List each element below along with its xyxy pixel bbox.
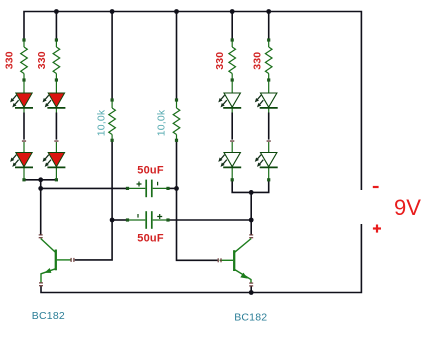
node dot cap1 right / node B (174, 186, 179, 191)
wire LED link chain3 (231, 113, 233, 140)
node dot top rail R4 (266, 9, 271, 14)
LED D8 chain4 bottom (255, 140, 278, 181)
wire top rail with left drop to R1 and right rail down to battery minus (24, 12, 361, 191)
svg-text:330: 330 (4, 51, 16, 69)
LED D1 chain1 top (10, 82, 33, 113)
node dot top rail 10k1 (110, 9, 115, 14)
resistor R4 330 chain4 (265, 38, 272, 81)
battery plus sign (373, 227, 381, 229)
svg-text:9V: 9V (394, 195, 421, 220)
battery minus sign (373, 186, 379, 188)
wire Q1 emitter to bottom rail and bottom rail to battery plus (41, 224, 361, 293)
resistor R2 330 chain2 (53, 38, 60, 81)
wire left LED join (24, 179, 56, 181)
LED D7 chain4 top (255, 82, 278, 113)
svg-text:330: 330 (214, 52, 226, 70)
wire cap2 right to node D (170, 219, 252, 221)
node dot top rail R2 (54, 9, 59, 14)
wire top rail drop to R3 (231, 12, 233, 41)
svg-text:10,0k: 10,0k (96, 109, 108, 136)
wire node B vertical: 10k2 bottom through cap1 dot to Q2 base (177, 140, 218, 260)
wire right LED join U (232, 180, 269, 193)
wire LED link chain4 (268, 113, 270, 140)
wire top rail drop to R5 10k (111, 12, 113, 100)
wire cap1 left horizontal (41, 187, 126, 189)
svg-text:50uF: 50uF (137, 164, 164, 176)
node dot Q2 emitter at bottom rail (249, 290, 254, 295)
resistor R3 330 chain3 (229, 38, 236, 81)
svg-text:50uF: 50uF (137, 233, 164, 245)
resistor R5 10,0k (109, 98, 116, 141)
node dot cap2 right / node D (249, 218, 254, 223)
node dot top rail 10k2 (174, 9, 179, 14)
svg-text:330: 330 (252, 52, 264, 70)
transistor Q2 BC182 (218, 234, 254, 286)
LED D4 chain2 bottom (43, 140, 66, 181)
wire node D vertical: right LED join to cap2 dot to Q2 collector (250, 192, 252, 235)
resistor R6 10,0k (173, 98, 180, 141)
resistor R1 330 chain1 (21, 38, 28, 81)
node dot left LED join (38, 177, 43, 182)
wire node A drop: LED join to cap1 branch then Q1 collector (40, 180, 42, 235)
node dot cap1 left branch (38, 186, 43, 191)
node dot top rail R3 (230, 9, 235, 14)
capacitor C2 50uF (126, 211, 170, 229)
LED D6 chain3 bottom (218, 140, 241, 181)
node dot cap2 left / node C (110, 218, 115, 223)
node dot right LED join (249, 190, 254, 195)
wire node C vertical: 10k1 bottom through cap2 dot to Q1 base (75, 140, 112, 260)
wire top rail drop to R6 10k (176, 12, 178, 100)
wire LED link chain2 (55, 113, 57, 140)
LED D3 chain2 top (43, 82, 66, 113)
wire cap2 left stub (112, 219, 126, 221)
wire LED1-LED2 link chain1 (23, 113, 25, 140)
wire cap1 right to node B (170, 187, 177, 189)
LED D2 chain1 bottom (10, 140, 33, 181)
wire Q2 emitter drop (250, 286, 252, 293)
capacitor C1 50uF (126, 180, 170, 198)
svg-text:BC182: BC182 (32, 310, 65, 322)
svg-text:330: 330 (36, 51, 48, 69)
svg-text:10,0k: 10,0k (155, 109, 167, 136)
LED D5 chain3 top (218, 82, 241, 113)
wire top rail drop to R4 (268, 12, 270, 41)
wire top rail drop to R2 (55, 12, 57, 41)
transistor Q1 BC182 (39, 234, 75, 286)
svg-text:BC182: BC182 (234, 311, 267, 323)
